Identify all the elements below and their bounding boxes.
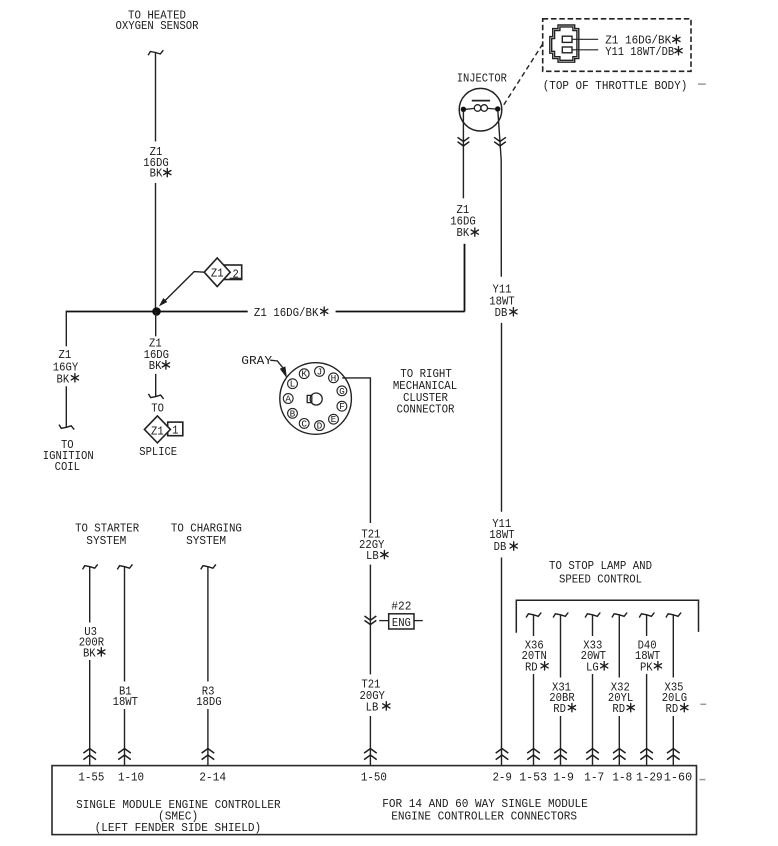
label Z1 16DG/BK (throttle body pin 1): [605, 33, 680, 47]
round mechanical cluster connector: [280, 363, 352, 435]
injector pin dots: [461, 106, 501, 112]
wire label B1 18WT: [113, 684, 138, 709]
svg-text:SPEED CONTROL: SPEED CONTROL: [559, 573, 642, 587]
svg-text:A: A: [285, 394, 291, 405]
injector coil loops: [466, 105, 496, 112]
svg-text:2-14: 2-14: [199, 770, 226, 784]
wire label Z1 16GY BK: [53, 348, 79, 386]
connector symbol at ignition coil wire end: [59, 425, 74, 430]
svg-text:OXYGEN SENSOR: OXYGEN SENSOR: [116, 19, 199, 33]
svg-text:K: K: [301, 369, 307, 380]
wire label X32 20YL RD: [608, 681, 634, 717]
connector symbol at oxygen sensor wire end: [148, 50, 163, 55]
svg-text:GRAY: GRAY: [241, 354, 272, 368]
svg-text:CONNECTOR: CONNECTOR: [397, 402, 455, 416]
svg-text:DB: DB: [494, 540, 507, 554]
connector pins A-L: [283, 367, 346, 431]
svg-text:(TOP OF THROTTLE BODY): (TOP OF THROTTLE BODY): [543, 79, 688, 93]
wire label R3 18DG: [196, 684, 221, 709]
dashed leader to throttle body connector: [504, 44, 543, 105]
svg-text:1-60: 1-60: [664, 770, 692, 784]
wire label Y11 18WT DB (lower): [489, 517, 517, 554]
wire Z1 from injector pin 1 down: [462, 112, 464, 198]
svg-text:#22: #22: [391, 599, 411, 613]
label TO HEATED OXYGEN SENSOR: [116, 9, 199, 34]
arrow from splice diamond to node: [159, 272, 204, 307]
svg-text:H: H: [331, 373, 337, 384]
connector pin cavity 1: [562, 36, 572, 42]
label GRAY with arrow: [241, 354, 287, 378]
svg-text:2-9: 2-9: [492, 770, 512, 784]
wire X35: [672, 615, 674, 765]
svg-text:18DG: 18DG: [196, 695, 221, 709]
wire label X36 20TN RD: [522, 639, 549, 675]
wire label Z1 16DG BK (oxygen sensor branch): [143, 145, 171, 181]
svg-text:COIL: COIL: [55, 460, 80, 474]
wire label Y11 18WT DB (upper): [489, 283, 517, 320]
wire label X33 20WT LG: [581, 639, 608, 675]
splice diamond Z1-1: [144, 416, 182, 443]
wire U3: [89, 567, 91, 765]
svg-text:Z1 16DG/BK: Z1 16DG/BK: [254, 306, 319, 320]
wire D40: [646, 615, 648, 765]
wire Z1 to heated oxygen sensor (upper segment): [155, 53, 157, 142]
connector center keyway: [307, 393, 322, 405]
svg-text:C: C: [301, 418, 307, 429]
svg-text:1-8: 1-8: [612, 770, 632, 784]
svg-text:1-55: 1-55: [78, 770, 104, 784]
inline connector chevrons on Y11 wire: [494, 137, 506, 146]
svg-text:2: 2: [233, 267, 239, 281]
wire T21 from pin H: [342, 378, 370, 766]
svg-text:E: E: [331, 414, 337, 425]
svg-text:ENGINE CONTROLLER CONNECTORS: ENGINE CONTROLLER CONNECTORS: [391, 809, 577, 823]
wire label X35 20LG RD: [662, 681, 688, 717]
label SINGLE MODULE ENGINE CONTROLLER (SMEC) (LEFT FENDER SIDE SHIELD): [76, 798, 281, 835]
bracket to stop lamp and speed control: [516, 600, 698, 633]
wire B1: [124, 567, 126, 765]
svg-text:RD: RD: [666, 702, 679, 716]
connector chevrons at SMEC pin 1-50: [364, 749, 377, 760]
wire label T21 20GY LB: [360, 678, 390, 715]
svg-text:J: J: [317, 366, 323, 377]
svg-text:Z1: Z1: [211, 267, 224, 281]
svg-text:ENG: ENG: [392, 616, 411, 630]
connector symbol at charging wire R3: [201, 564, 216, 569]
svg-text:1-53: 1-53: [519, 770, 547, 784]
wire X32: [618, 615, 620, 765]
wire label T21 22GY LB: [359, 527, 388, 563]
wire main horizontal Z1 16DG/BK: [66, 311, 464, 313]
svg-text:LG: LG: [586, 660, 599, 674]
svg-text:BK: BK: [457, 226, 470, 240]
pin leader lines: [572, 39, 598, 50]
svg-text:1-50: 1-50: [361, 770, 387, 784]
svg-text:D: D: [317, 421, 323, 432]
svg-text:(LEFT FENDER SIDE SHIELD): (LEFT FENDER SIDE SHIELD): [95, 821, 262, 835]
svg-text:18WT: 18WT: [113, 695, 138, 709]
wire X33: [592, 615, 594, 765]
svg-text:RD: RD: [612, 702, 625, 716]
svg-text:BK: BK: [150, 167, 163, 181]
connector symbols on stop lamp wires: [526, 613, 681, 618]
wire Z1 corner segment to main horizontal: [464, 244, 466, 312]
wire left branch to ignition coil (horizontal corner + vertical): [65, 311, 67, 428]
svg-text:F: F: [339, 401, 345, 412]
injector coil bar: [472, 100, 490, 102]
wire X36: [533, 615, 535, 765]
connector chevrons at SMEC pins 1-53..1-60: [527, 749, 679, 760]
inline connector chevrons on Z1 wire: [458, 137, 470, 146]
splice diamond Z1-2: [204, 258, 242, 287]
label FOR 14 AND 60 WAY SINGLE MODULE ENGINE CONTROLLER CONNECTORS: [382, 797, 588, 823]
label TO STOP LAMP AND SPEED CONTROL: [549, 559, 652, 587]
label TO STARTER SYSTEM: [75, 522, 139, 549]
svg-text:BK: BK: [57, 372, 70, 386]
inline connector #22 chevrons: [365, 616, 377, 625]
wire label D40 18WT PK: [635, 639, 662, 675]
svg-text:SPLICE: SPLICE: [139, 445, 177, 459]
throttle body connector dashed box: [543, 19, 691, 72]
wire label U3 200R BK: [79, 625, 105, 661]
wire label Z1 16DG/BK on main horizontal: [254, 306, 328, 320]
node junction dot: [152, 307, 161, 316]
svg-text:Z1: Z1: [151, 424, 164, 438]
wire below node to splice Z1: [155, 312, 157, 397]
svg-text:DB: DB: [495, 306, 508, 320]
svg-text:B: B: [290, 408, 296, 419]
SMEC controller box: [52, 766, 697, 835]
svg-text:Y11 18WT/DB: Y11 18WT/DB: [605, 45, 674, 59]
svg-text:LB: LB: [366, 549, 379, 563]
connector symbol at starter wire B1: [117, 564, 132, 569]
connector chevrons at SMEC pin 1-55: [83, 749, 96, 760]
svg-text:1: 1: [172, 424, 178, 438]
connector chevrons at SMEC pin 1-10: [118, 749, 131, 760]
label TO CHARGING SYSTEM: [171, 522, 242, 549]
svg-text:1-10: 1-10: [118, 770, 144, 784]
svg-text:PK: PK: [640, 660, 653, 674]
connector chevrons at SMEC pin 2-9: [496, 749, 509, 760]
label TO RIGHT MECHANICAL CLUSTER CONNECTOR: [393, 367, 457, 416]
wire label X31 20BR RD: [549, 681, 575, 717]
svg-text:G: G: [339, 386, 345, 397]
svg-text:LB: LB: [366, 700, 379, 714]
injector component circle: [459, 88, 502, 131]
svg-text:BK: BK: [83, 646, 96, 660]
svg-text:1-29: 1-29: [636, 770, 663, 784]
wire X31: [560, 615, 562, 765]
svg-text:SYSTEM: SYSTEM: [186, 534, 226, 548]
svg-text:TO: TO: [151, 402, 164, 416]
connector symbol above splice: [148, 394, 163, 399]
pin number labels: [78, 770, 692, 784]
wire Z1 (oxygen branch lower segment to node): [155, 183, 157, 308]
wire Y11 from injector pin 2 down: [498, 112, 502, 766]
label Y11 18WT/DB (throttle body pin 2): [605, 45, 682, 59]
wire label Z1 16DG BK (splice branch): [144, 337, 170, 374]
wire R3: [207, 567, 209, 765]
connector pin cavity 2: [562, 47, 572, 53]
svg-text:SYSTEM: SYSTEM: [86, 534, 126, 548]
svg-text:TO STOP LAMP AND: TO STOP LAMP AND: [549, 559, 652, 573]
wire label Z1 16DG BK (injector branch): [450, 203, 478, 240]
scan artifact dashes: [698, 84, 706, 780]
svg-text:RD: RD: [525, 660, 538, 674]
connector symbol at starter wire U3: [83, 564, 98, 569]
label TO IGNITION COIL: [43, 438, 94, 474]
svg-text:RD: RD: [553, 702, 566, 716]
svg-text:INJECTOR: INJECTOR: [457, 72, 507, 86]
svg-text:1-7: 1-7: [584, 770, 604, 784]
throttle body connector plug outline: [550, 25, 579, 62]
ENG connector box: [379, 614, 423, 630]
connector chevrons at SMEC pin 2-14: [202, 749, 215, 760]
svg-text:1-9: 1-9: [553, 770, 574, 784]
svg-text:BK: BK: [149, 359, 162, 373]
svg-text:L: L: [290, 379, 296, 390]
